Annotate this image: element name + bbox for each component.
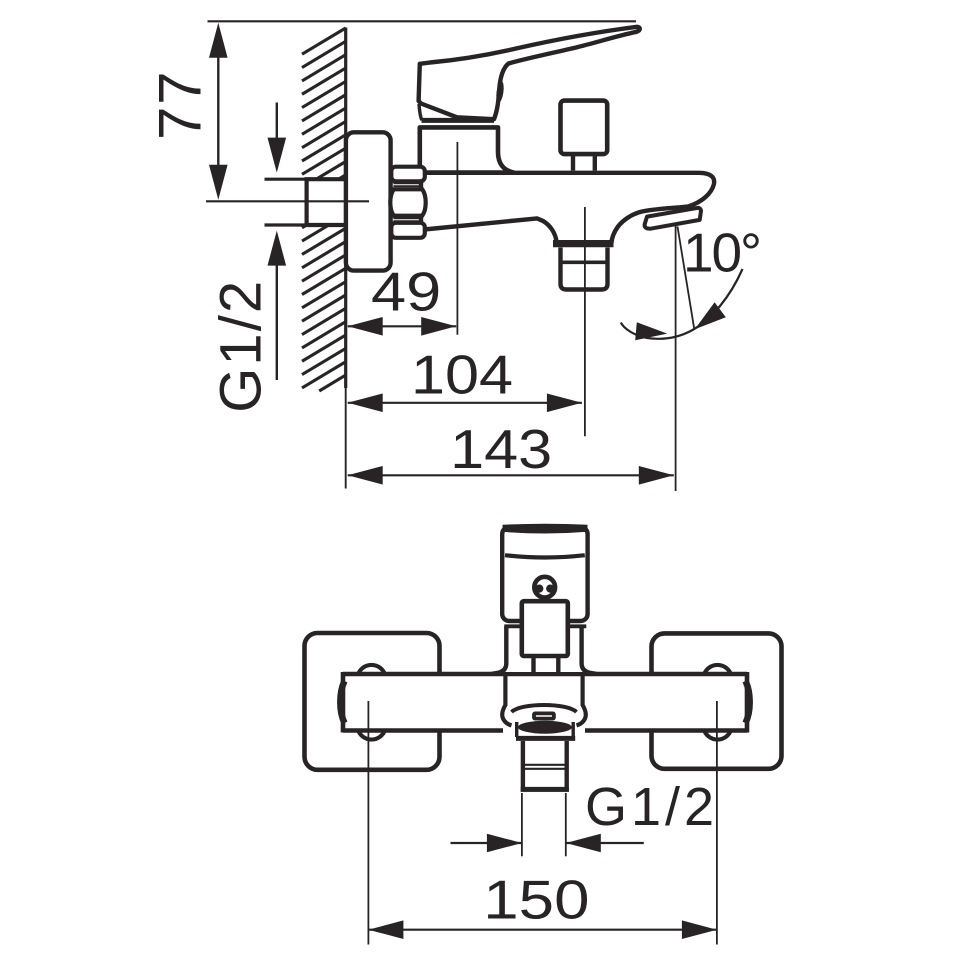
svg-text:10°: 10° — [683, 222, 762, 284]
svg-text:104: 104 — [411, 344, 513, 405]
svg-text:49: 49 — [371, 260, 441, 322]
svg-text:G1/2: G1/2 — [209, 281, 274, 413]
svg-text:150: 150 — [483, 868, 589, 930]
svg-text:77: 77 — [147, 72, 214, 141]
svg-text:143: 143 — [450, 419, 552, 480]
svg-text:G1/2: G1/2 — [585, 777, 714, 837]
